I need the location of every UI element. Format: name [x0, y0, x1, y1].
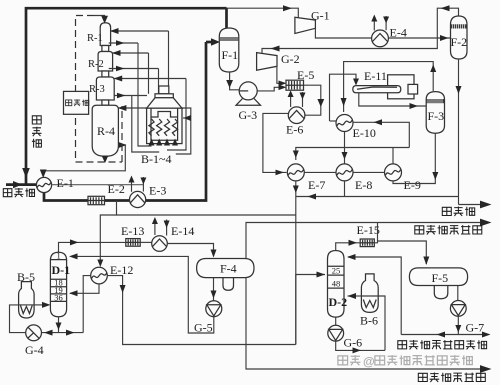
heat-exchanger E-13 — [126, 239, 140, 247]
wire thick top recycle line — [26, 8, 227, 184]
wire D-2 bottoms to G-6 — [335, 317, 337, 325]
wire G-6 discharge — [336, 341, 385, 353]
pump G-7 — [450, 301, 466, 317]
svg-text:E-2: E-2 — [108, 182, 125, 196]
svg-text:D-2: D-2 — [329, 295, 348, 309]
wire B-6 supply riser — [378, 296, 385, 350]
reboiler B-6 — [361, 274, 378, 313]
svg-text:R-2: R-2 — [88, 59, 104, 70]
wire sulfolane header — [401, 332, 490, 338]
wire E-1 outlet thin line — [52, 184, 144, 186]
F-4 boot — [223, 278, 234, 291]
svg-text:25: 25 — [332, 266, 341, 276]
wire feed drop to E-12 — [97, 215, 116, 267]
wire R-1 inlet — [110, 28, 169, 94]
wire F-2 bottoms drop — [456, 59, 462, 205]
wire G-7 discharge — [455, 316, 461, 334]
B-6 heating element — [363, 300, 376, 308]
svg-text:E-4: E-4 — [390, 26, 407, 40]
heat-exchanger E-15 — [360, 239, 374, 247]
wire D-2 overhead to E-15 — [336, 240, 361, 251]
label 去燃料气系统 — [415, 225, 482, 235]
svg-text:E-10: E-10 — [353, 126, 376, 140]
svg-text:F-5: F-5 — [432, 271, 449, 285]
wire F-1 overhead to G-1 — [227, 8, 299, 17]
B-5 heating element — [21, 306, 33, 314]
arrow to G-1 — [283, 5, 292, 11]
vessel F-1 — [219, 28, 239, 72]
furnace coil 2 — [157, 119, 162, 136]
wire under-furnace pass — [132, 96, 159, 153]
wire E-7/E-8 link — [304, 171, 336, 173]
wire E-4 stub down-arrow — [383, 16, 389, 30]
wire D-1 bottoms — [56, 317, 62, 333]
pump G-5 — [206, 301, 222, 317]
filter E-11 — [353, 75, 418, 99]
wire F-3 bottoms to E-9 — [393, 133, 438, 183]
wire E-5/E-6 stub up — [288, 90, 294, 107]
wire R-4 catalyst outlet — [102, 156, 109, 164]
wire E-4 to F-2 — [388, 35, 450, 41]
label 石脑油 — [3, 188, 34, 197]
wire R-2 outlet — [109, 66, 159, 94]
wire G-2 discharge to E-5 — [277, 66, 287, 86]
svg-text:E-8: E-8 — [355, 178, 372, 192]
furnace flange — [155, 94, 173, 98]
reboiler B-5 — [19, 282, 34, 318]
wire thick arrow into F-1 — [206, 41, 214, 44]
svg-text:F-2: F-2 — [451, 35, 468, 49]
svg-text:R-1: R-1 — [87, 33, 103, 44]
wire E-10 return line — [353, 119, 409, 147]
heat-exchanger E-10 — [336, 115, 353, 132]
wire E-4 stub up-arrow — [371, 15, 377, 31]
furnace stack — [159, 86, 169, 94]
pump G-3 — [236, 82, 261, 105]
svg-text:G-6: G-6 — [344, 336, 363, 350]
wire F-1 bottom to G-3 — [226, 72, 239, 90]
wire E-9 top to hot line — [392, 148, 394, 164]
wire R-3 outlet — [114, 93, 147, 99]
wire D-1 bottoms riser to E-12 — [83, 276, 91, 333]
wire G-4 to B-5 loop — [10, 305, 26, 333]
svg-text:F-1: F-1 — [222, 48, 239, 62]
svg-text:1: 1 — [57, 251, 61, 261]
wire E-7 bottom main drop — [293, 181, 299, 345]
wire naphtha feed arrow — [6, 183, 37, 186]
label 去环丁砜抽提装置 — [398, 340, 487, 349]
cooler E-4 — [372, 30, 389, 47]
label zhihu — [338, 355, 472, 369]
wire F-3 overhead to E-10 — [341, 62, 437, 112]
furnace inner wall — [151, 108, 178, 140]
wire E-11 outlet to F-3 — [359, 93, 426, 109]
wire E-6 to E-7 — [263, 113, 288, 175]
regenerator box 再生器 — [64, 91, 89, 114]
wire E-5/E-6 stub down — [300, 92, 306, 107]
wire effluent tee to stabilizer feed — [117, 201, 296, 216]
furnace body — [147, 108, 182, 143]
vessel F-2 — [451, 16, 468, 59]
svg-text:F-4: F-4 — [220, 262, 237, 276]
wire thick drop into F-1 — [225, 8, 228, 29]
compressor G-2 — [257, 53, 277, 71]
wire dashed right leg — [121, 106, 123, 162]
wire G-5 reflux to D-1 — [69, 253, 214, 333]
heat-exchanger E-1 — [36, 177, 51, 192]
wire E-14 stub up — [152, 217, 158, 235]
F-3 hatch band — [427, 99, 444, 103]
wire D-1 overhead to E-13/E-14 — [59, 239, 126, 252]
wire E-14 stub down — [164, 220, 170, 236]
wire E-15 to fuel gas riser — [374, 223, 377, 243]
svg-text:E-6: E-6 — [286, 123, 303, 137]
svg-text:E-15: E-15 — [357, 223, 380, 237]
column D-2 — [328, 251, 345, 318]
compressor G-1 — [295, 17, 316, 33]
wire G-3 discharge to E-5 — [257, 85, 286, 91]
wire E-13 to E-14 — [140, 241, 152, 243]
wire F-4 to G-5 — [211, 278, 217, 301]
wire feed line into R-1 top — [94, 16, 105, 19]
svg-text:48: 48 — [332, 279, 341, 289]
svg-text:B-6: B-6 — [360, 314, 378, 328]
label 再生器 — [66, 99, 89, 106]
vessel F-3 — [426, 92, 444, 134]
reactor neck R2-R3 — [102, 71, 109, 77]
wire E-5 outlet loop to E-6 — [304, 85, 325, 115]
heat-exchanger E-12 — [91, 267, 108, 284]
svg-text:G-7: G-7 — [466, 321, 485, 335]
svg-text:@: @ — [363, 355, 375, 369]
cooler E-14 — [152, 236, 168, 252]
cooler E-3 — [130, 191, 146, 207]
svg-text:36: 36 — [54, 293, 63, 303]
svg-text:F-3: F-3 — [428, 109, 445, 123]
heat-exchanger E-9 — [385, 164, 402, 181]
wire G-1 discharge to E-4 — [315, 28, 371, 38]
F-5 boot — [434, 286, 448, 299]
drum F-5 — [409, 268, 467, 286]
wire bottoms junction right to riser — [59, 330, 84, 336]
svg-text:B-5: B-5 — [17, 270, 35, 284]
heat-exchanger E-7 — [287, 164, 304, 181]
svg-text:B-1~4: B-1~4 — [141, 152, 172, 166]
wire condensate header to E-7 drop — [296, 194, 459, 200]
wire E-12 to D-1 feed — [69, 284, 99, 296]
svg-text:E-1: E-1 — [57, 176, 74, 190]
wire byproduct hydrogen header — [459, 201, 492, 209]
wire line through B-5 — [19, 304, 34, 306]
pump G-4 — [26, 325, 42, 341]
wire F-2 overhead to G-2 — [262, 5, 459, 53]
heat-exchanger E-5 — [286, 80, 304, 90]
column D-1 — [50, 252, 66, 316]
wire E-8 bottom drop — [344, 181, 346, 197]
wire R-1 outlet — [109, 40, 152, 146]
wire R-4 effluent to E-1 — [43, 145, 125, 173]
svg-text:D-1: D-1 — [52, 263, 71, 277]
svg-text:E-9: E-9 — [404, 178, 421, 192]
svg-text:G-4: G-4 — [25, 343, 44, 357]
wire line through B-6 — [361, 295, 378, 297]
reactor R-4 — [92, 105, 118, 156]
F-1 hatch band — [220, 37, 238, 41]
wire fuel gas header — [246, 219, 492, 259]
wire E-11 feed — [330, 74, 360, 121]
wire F-5 to G-7 — [457, 286, 459, 301]
svg-text:E-12: E-12 — [110, 263, 133, 277]
drum F-4 — [197, 259, 254, 278]
wire D-2 reflux riser — [347, 254, 401, 335]
svg-text:E-11: E-11 — [364, 69, 387, 83]
reactor neck R1-R2 — [102, 46, 109, 52]
wire dashed regenerator riser — [76, 16, 123, 163]
reactor neck R3-R4 — [102, 100, 109, 105]
wire R-4 inlet — [118, 105, 191, 154]
svg-text:G-2: G-2 — [281, 52, 300, 66]
heat-exchanger E-2 — [88, 196, 105, 204]
svg-text:E-3: E-3 — [149, 184, 166, 198]
svg-text:E-13: E-13 — [121, 224, 144, 238]
wire feed through E-1 to E-2/E-3 — [44, 42, 206, 201]
wire E-8/E-9 link — [353, 171, 385, 173]
svg-text:E-14: E-14 — [171, 224, 194, 238]
wire E-12 outlet to D-2 feed run — [107, 276, 295, 345]
wire B-6 to D-2 return — [348, 293, 362, 299]
D-1 tray lines — [50, 260, 66, 302]
svg-text:G-5: G-5 — [194, 321, 213, 335]
wire E-15 to F-5 — [378, 241, 430, 265]
label 去液化气系统 — [418, 373, 485, 383]
wire LPG header — [246, 278, 492, 373]
svg-text:G-1: G-1 — [311, 9, 330, 23]
reactor R-2 — [98, 52, 113, 72]
furnace hood — [147, 98, 182, 108]
wire D-2 feed riser — [296, 272, 325, 345]
arrow down recycle left vertical — [22, 168, 30, 178]
wire E-3 stub down-arrow — [140, 177, 146, 192]
wire B-5 to D-1 return — [34, 302, 50, 308]
svg-text:E-5: E-5 — [297, 68, 314, 82]
wire E-14 to F-4 — [167, 244, 216, 258]
cooler E-6 — [288, 107, 305, 124]
label 循环氢 — [32, 116, 42, 148]
label 副产氢 — [442, 207, 474, 217]
furnace coil 4 — [172, 119, 177, 136]
svg-text:G-3: G-3 — [239, 108, 258, 122]
reactor R-1 — [100, 23, 110, 46]
furnace coil 3 — [164, 119, 169, 136]
svg-text:E-7: E-7 — [308, 178, 325, 192]
furnace burner arrows — [149, 139, 179, 146]
heat-exchanger E-8 — [336, 164, 353, 181]
wire E-3 stub up-arrow — [129, 176, 135, 192]
F-2 hatch band — [451, 24, 467, 28]
pump G-6 — [328, 325, 344, 341]
wire hot line to E-7 top — [293, 148, 410, 161]
svg-text:R-4: R-4 — [97, 124, 115, 138]
furnace coil 1 — [149, 119, 154, 136]
svg-text:R-3: R-3 — [89, 84, 105, 95]
wire E-10 to E-8 — [342, 132, 348, 164]
reactor R-3 — [96, 77, 114, 100]
D-2 tray lines — [328, 266, 345, 288]
wire R-2 inlet — [112, 50, 149, 94]
wire bottoms junction left to G-4 — [42, 330, 59, 336]
wire R-3 inlet — [114, 76, 186, 151]
